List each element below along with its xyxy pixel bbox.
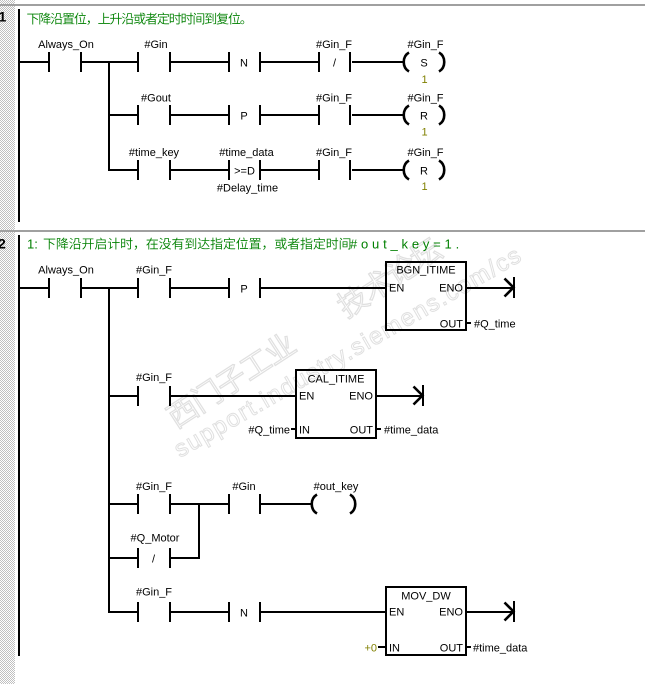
svg-text:support.industry.siemens.com/c: support.industry.siemens.com/cs: [170, 241, 528, 463]
OUT tick of BGN_ITIME: [467, 322, 471, 324]
svg-text:#Gin: #Gin: [232, 481, 255, 493]
positive edge element P net2: [228, 278, 261, 298]
svg-text:#Gin_F: #Gin_F: [316, 93, 352, 105]
contact #time_key: [129, 147, 180, 180]
wire branch to #Gin_F rung2: [110, 395, 137, 397]
network 2 branch vertical: [108, 287, 110, 613]
wire branch elbow to #Gin_F rung4: [110, 611, 137, 613]
svg-text:1: 1: [421, 181, 427, 193]
wire branch to #Q_Motor: [110, 557, 137, 559]
wire to CAL_ITIME: [171, 395, 295, 397]
svg-text:P: P: [240, 284, 247, 296]
wire: [171, 503, 228, 505]
svg-text:R: R: [420, 111, 428, 123]
svg-text:IN: IN: [389, 643, 400, 655]
contact #Gin_F NC: [316, 39, 352, 72]
wire: [261, 169, 318, 171]
svg-text:IN: IN: [299, 425, 310, 437]
wire: [171, 114, 228, 116]
svg-text:#time_data: #time_data: [219, 147, 274, 159]
svg-text:Always_On: Always_On: [38, 265, 94, 277]
svg-text:N: N: [240, 58, 248, 70]
wire branch to #Gout: [110, 114, 137, 116]
negative edge element N: [228, 52, 261, 72]
svg-text:#out_key=1.: #out_key=1.: [350, 237, 463, 252]
watermark Chinese text 西门子工业 技术论坛: [164, 234, 445, 430]
function box MOV_DW: [386, 587, 466, 655]
svg-text:#Gin_F: #Gin_F: [407, 39, 443, 51]
wire ENO out of BGN_ITIME: [467, 287, 513, 289]
contact #Gin: [228, 481, 261, 514]
svg-text:1:: 1:: [27, 237, 38, 252]
svg-text:#Q_time: #Q_time: [474, 319, 516, 331]
network 1 branch vertical: [108, 61, 110, 171]
wire: [352, 114, 404, 116]
svg-text:ENO: ENO: [349, 391, 373, 403]
svg-text:>=D: >=D: [234, 166, 255, 178]
svg-text:1: 1: [0, 9, 7, 25]
svg-text:#Q_time: #Q_time: [248, 425, 290, 437]
svg-text:EN: EN: [299, 391, 314, 403]
comparator >=D #time_data #Delay_time: [217, 147, 278, 195]
svg-text:#time_data: #time_data: [473, 643, 528, 655]
wire: [171, 169, 228, 171]
svg-text:/: /: [333, 58, 337, 70]
OUT tick of CAL_ITIME: [377, 428, 381, 430]
svg-text:P: P: [240, 111, 247, 123]
svg-text:#Gin_F: #Gin_F: [136, 372, 172, 384]
left margin dither strip: [0, 0, 15, 684]
contact #Gin_F net2 rung4: [136, 587, 172, 623]
wire: [171, 611, 228, 613]
svg-text:N: N: [240, 608, 248, 620]
network 1 title comment: [27, 13, 244, 25]
positive edge element P: [228, 105, 261, 125]
wire: [171, 287, 228, 289]
svg-text:2: 2: [0, 236, 6, 252]
svg-text:#time_key: #time_key: [129, 147, 180, 159]
svg-text:#Gin_F: #Gin_F: [316, 147, 352, 159]
contact #Gin: [137, 39, 171, 72]
svg-text:#Gin: #Gin: [144, 39, 167, 51]
wire: [82, 287, 137, 289]
open branch arrow net2 rung1: [505, 277, 516, 298]
contact #Gin_F: [316, 93, 352, 126]
wire: [171, 61, 228, 63]
svg-text:OUT: OUT: [350, 425, 374, 437]
IN tick of MOV_DW: [378, 646, 385, 648]
wire: [352, 61, 404, 63]
svg-text:#Gin_F: #Gin_F: [407, 147, 443, 159]
svg-text:MOV_DW: MOV_DW: [401, 591, 451, 603]
coil #out_key: [312, 481, 359, 514]
contact #Q_Motor NC: [131, 533, 180, 569]
svg-text:#Gin_F: #Gin_F: [136, 481, 172, 493]
svg-text:BGN_ITIME: BGN_ITIME: [396, 265, 455, 277]
svg-text:#Gin_F: #Gin_F: [136, 587, 172, 599]
coil #Gin_F S: [404, 39, 445, 72]
wire to out_key coil: [261, 503, 311, 505]
svg-text:#Delay_time: #Delay_time: [217, 183, 278, 195]
svg-text:#Gin_F: #Gin_F: [316, 39, 352, 51]
wire #Q_Motor to junction: [171, 557, 200, 559]
junction vertical rung3 parallel: [198, 503, 200, 559]
svg-text:1: 1: [421, 127, 427, 139]
svg-text:R: R: [420, 166, 428, 178]
contact #Gout: [137, 93, 171, 126]
coil #Gin_F R: [404, 93, 445, 125]
svg-text:+0: +0: [364, 643, 377, 655]
network 2 power rail: [18, 235, 20, 656]
top separator line: [0, 4, 645, 6]
contact Always_On net2: [38, 265, 94, 299]
wire rail to Always_On net2: [20, 287, 48, 289]
contact Always_On: [38, 39, 94, 72]
function box BGN_ITIME: [386, 262, 466, 331]
wire: [261, 61, 318, 63]
svg-text:CAL_ITIME: CAL_ITIME: [308, 374, 365, 386]
network separator line: [0, 230, 645, 232]
svg-text:OUT: OUT: [440, 319, 464, 331]
svg-text:#out_key: #out_key: [314, 481, 359, 493]
contact #Gin_F third: [316, 147, 352, 180]
svg-text:#Q_Motor: #Q_Motor: [131, 533, 180, 545]
svg-text:EN: EN: [389, 283, 404, 295]
contact #Gin_F net2 rung2: [136, 372, 172, 406]
wire: [82, 61, 137, 63]
wire: [352, 169, 404, 171]
coil #Gin_F R second: [404, 147, 445, 180]
wire to MOV_DW: [261, 611, 385, 613]
svg-text:#Gin_F: #Gin_F: [407, 93, 443, 105]
svg-text:#Gout: #Gout: [141, 93, 171, 105]
negative edge element N net2: [228, 602, 261, 622]
svg-text:EN: EN: [389, 607, 404, 619]
svg-text:OUT: OUT: [440, 643, 464, 655]
svg-text:ENO: ENO: [439, 283, 463, 295]
contact #Gin_F net2 rung1: [136, 265, 172, 299]
network 1 power rail: [18, 9, 20, 222]
svg-text:#time_data: #time_data: [384, 425, 439, 437]
svg-text:/: /: [152, 554, 156, 566]
svg-text:S: S: [420, 58, 427, 70]
function box CAL_ITIME: [296, 370, 376, 438]
svg-text:ENO: ENO: [439, 607, 463, 619]
wire branch to #Gin_F rung3: [110, 503, 137, 505]
contact #Gin_F net2 rung3: [136, 481, 172, 514]
wire ENO out of CAL_ITIME: [377, 395, 422, 397]
open branch arrow net2 rung4: [505, 601, 516, 622]
wire ENO out of MOV_DW: [467, 611, 513, 613]
IN tick of CAL_ITIME: [291, 428, 295, 430]
svg-text:1: 1: [421, 74, 427, 86]
svg-text:Always_On: Always_On: [38, 39, 94, 51]
network 2 title comment: [27, 237, 463, 252]
wire branch to #time_key: [110, 169, 137, 171]
open branch arrow net2 rung2: [414, 385, 425, 406]
wire to BGN_ITIME: [261, 287, 385, 289]
OUT tick of MOV_DW: [467, 646, 471, 648]
svg-text:#Gin_F: #Gin_F: [136, 265, 172, 277]
wire: [261, 114, 318, 116]
wire rail to Always_On: [20, 61, 48, 63]
